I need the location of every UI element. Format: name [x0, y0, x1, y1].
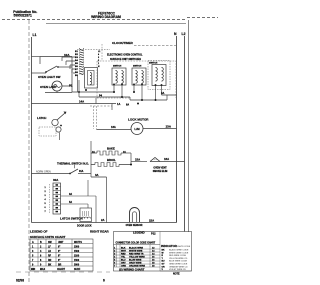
oven lamp: [40, 81, 72, 93]
oven light switch loop: [32, 53, 73, 92]
svg-text:UNIT: UNIT: [58, 242, 64, 244]
svg-text:CHART: CHART: [57, 268, 66, 271]
oven sensor wire: [32, 210, 177, 223]
thermal switch wire: [32, 162, 92, 183]
svg-text:LATCH: LATCH: [37, 116, 46, 120]
connector strip P2: [45, 180, 97, 228]
svg-text:BROIL: BROIL: [107, 158, 116, 162]
svg-text:3000: 3000: [74, 264, 80, 266]
svg-text:13A: 13A: [166, 125, 172, 129]
svg-text:2A: 2A: [101, 218, 105, 222]
bottom-center table frame: [114, 231, 192, 272]
svg-text:RED WIRE CODE: RED WIRE CODE: [169, 255, 187, 257]
svg-text:ELECTRONIC OVEN CONTROL: ELECTRONIC OVEN CONTROL: [107, 54, 143, 57]
svg-text:22A: 22A: [149, 219, 154, 223]
svg-text:BLU: BLU: [121, 259, 126, 261]
svg-text:P1: P1: [69, 84, 73, 88]
surface unit labels row: [110, 58, 158, 68]
svg-text:BK: BK: [48, 264, 52, 266]
svg-text:OVEN VENT: OVEN VENT: [153, 168, 167, 170]
svg-text:YELLOW WIRE CD: YELLOW WIRE CD: [169, 258, 188, 260]
svg-text:L/M: L/M: [134, 127, 140, 131]
svg-text:WATTS: WATTS: [74, 241, 82, 244]
oven vent thermal limiter: [135, 157, 185, 173]
svg-text:8": 8": [58, 255, 60, 257]
svg-text:WHITE WIRE CODE: WHITE WIRE CODE: [169, 252, 189, 254]
svg-text:31A: 31A: [79, 170, 84, 173]
svg-text:YELLOW WIRE: YELLOW WIRE: [129, 256, 145, 258]
svg-text:CONNECTOR COLOR CODE CHART: CONNECTOR COLOR CODE CHART: [116, 242, 156, 245]
svg-text:OVEN LAMP: OVEN LAMP: [40, 85, 57, 89]
door lock coil box: [80, 208, 92, 222]
fold dashes: [16, 271, 110, 273]
svg-text:CLOCK/TIMER: CLOCK/TIMER: [112, 41, 134, 45]
bake element: [91, 141, 131, 155]
svg-text:OVEN LIGHT SW: OVEN LIGHT SW: [38, 75, 61, 79]
svg-text:SURFACE UNITS CHART: SURFACE UNITS CHART: [30, 235, 66, 239]
svg-text:2A: 2A: [123, 151, 126, 154]
svg-text:WHITE WIRE: WHITE WIRE: [129, 250, 143, 252]
svg-text:GRAY WIRE CODE: GRAY WIRE CODE: [169, 263, 188, 266]
svg-text:2100: 2100: [74, 255, 80, 257]
svg-text:(S) WIRING CHART: (S) WIRING CHART: [119, 268, 145, 272]
svg-text:MIN: MIN: [31, 269, 36, 271]
svg-text:02/98: 02/98: [16, 279, 24, 283]
title FEF376CC WIRING DIAGRAM: [91, 11, 121, 19]
svg-text:GRAY WIRE: GRAY WIRE: [129, 261, 142, 264]
oven temp sensor: [126, 208, 143, 228]
svg-text:WIRING DIAGRAM: WIRING DIAGRAM: [91, 15, 121, 19]
surface unit switch 1: [112, 68, 126, 85]
svg-text:RR: RR: [48, 260, 52, 262]
svg-text:BLUE WIRE: BLUE WIRE: [129, 259, 142, 261]
svg-text:BR: BR: [58, 264, 62, 266]
svg-text:LOCK MOTOR: LOCK MOTOR: [128, 118, 149, 122]
surface unit switch 2: [132, 68, 146, 85]
pin labels column left of surface units: [98, 51, 101, 68]
svg-text:W: W: [162, 252, 164, 254]
svg-text:OVEN SENSOR: OVEN SENSOR: [126, 225, 143, 227]
svg-text:BK: BK: [162, 250, 166, 252]
svg-text:LATCH SWITCH: LATCH SWITCH: [60, 217, 83, 221]
svg-text:RED: RED: [121, 253, 126, 255]
svg-text:1500: 1500: [74, 246, 80, 248]
oven circuit wire 14A: [32, 100, 121, 130]
svg-text:BLACK WIRE CODE: BLACK WIRE CODE: [169, 249, 189, 252]
svg-text:MAX: MAX: [40, 268, 46, 271]
svg-text:5A: 5A: [69, 201, 72, 204]
svg-text:6A: 6A: [126, 104, 129, 107]
svg-text:6": 6": [58, 246, 60, 248]
svg-text:RED WIRE TR: RED WIRE TR: [129, 253, 144, 255]
svg-text:SWITCH: SWITCH: [133, 66, 142, 68]
lock motor: [97, 118, 177, 135]
svg-text:SMOKE ELIM: SMOKE ELIM: [153, 171, 168, 173]
svg-text:LR: LR: [48, 251, 51, 253]
surface unit switch 3 (dual): [148, 61, 170, 90]
svg-text:RIGHT REAR: RIGHT REAR: [90, 230, 110, 234]
svg-text:SURF: SURF: [74, 269, 81, 271]
wires under surface units: [72, 80, 177, 104]
terminal marks under boxes: [113, 84, 162, 86]
svg-text:GRY: GRY: [121, 262, 126, 264]
svg-text:NORM OPEN: NORM OPEN: [36, 171, 51, 174]
right page border: [188, 20, 190, 232]
svg-text:6: 6: [103, 279, 105, 283]
svg-text:L2: L2: [182, 32, 186, 36]
top rule 2: [46, 23, 186, 25]
svg-text:ORANGE WIRE CD: ORANGE WIRE CD: [169, 265, 188, 268]
svg-text:DOOR LOCK: DOOR LOCK: [77, 225, 92, 228]
fan wires into pin column: [32, 57, 78, 93]
svg-text:LEGEND: LEGEND: [133, 231, 145, 235]
svg-text:1500: 1500: [74, 260, 80, 262]
svg-text:SURFACE UNIT SWITCHES: SURFACE UNIT SWITCHES: [110, 58, 141, 61]
door latch mechanism: [37, 112, 67, 141]
svg-text:WHT: WHT: [121, 250, 127, 252]
svg-text:1500: 1500: [74, 251, 80, 253]
publication number text: [13, 10, 37, 18]
svg-text:SWITCH: SWITCH: [113, 66, 122, 68]
svg-text:6": 6": [58, 251, 60, 253]
switch blade: [46, 66, 57, 72]
svg-text:P12: P12: [151, 232, 156, 236]
junction dots: [113, 91, 157, 105]
svg-text:YEL: YEL: [121, 256, 126, 258]
bottom-left chart title: [30, 230, 110, 240]
svg-text:18A: 18A: [111, 125, 116, 129]
clock box right edge: [101, 44, 103, 61]
svg-text:BLK: BLK: [121, 247, 126, 249]
maintop dashed box: [97, 61, 176, 98]
svg-text:BU: BU: [162, 261, 166, 263]
svg-text:4A: 4A: [161, 91, 164, 95]
small relay box: [78, 68, 98, 94]
wire L1 bus: [31, 37, 33, 223]
svg-text:30A: 30A: [53, 178, 59, 182]
svg-text:THERMAL SWITCH N.O.: THERMAL SWITCH N.O.: [57, 162, 89, 166]
connector pin column P1: [69, 48, 84, 88]
svg-text:LEGEND OF: LEGEND OF: [30, 230, 48, 234]
svg-text:BLUE WIRE CODE: BLUE WIRE CODE: [169, 261, 188, 263]
wire L2 bus: [184, 36, 186, 232]
top right dash rule: [187, 17, 218, 19]
svg-text:6": 6": [58, 260, 60, 262]
svg-text:BAKE: BAKE: [107, 147, 115, 151]
svg-text:5995322871: 5995322871: [14, 14, 33, 18]
svg-text:3A: 3A: [95, 173, 99, 177]
wire N bus: [176, 36, 178, 223]
page fold dashed rule: [2, 19, 187, 21]
clock/timer label: [77, 41, 176, 50]
svg-text:14A: 14A: [79, 100, 84, 104]
svg-text:NOTE: NOTE: [173, 273, 180, 276]
broil element: [91, 153, 147, 167]
svg-text:16A: 16A: [164, 157, 169, 161]
svg-text:15A: 15A: [135, 158, 140, 162]
svg-text:BLACK WIRE: BLACK WIRE: [129, 246, 144, 249]
svg-text:1A: 1A: [117, 102, 120, 106]
left page border: [28, 20, 30, 283]
wire to sensor drop: [91, 165, 107, 223]
svg-text:OR: OR: [162, 266, 166, 268]
svg-text:10A: 10A: [64, 53, 70, 57]
svg-text:L1: L1: [33, 33, 37, 37]
svg-text:3A: 3A: [69, 193, 72, 196]
bottom-left table: [30, 239, 93, 271]
bottom-right legend: [160, 244, 192, 276]
svg-text:LIGHTS CODE: LIGHTS CODE: [176, 246, 191, 248]
